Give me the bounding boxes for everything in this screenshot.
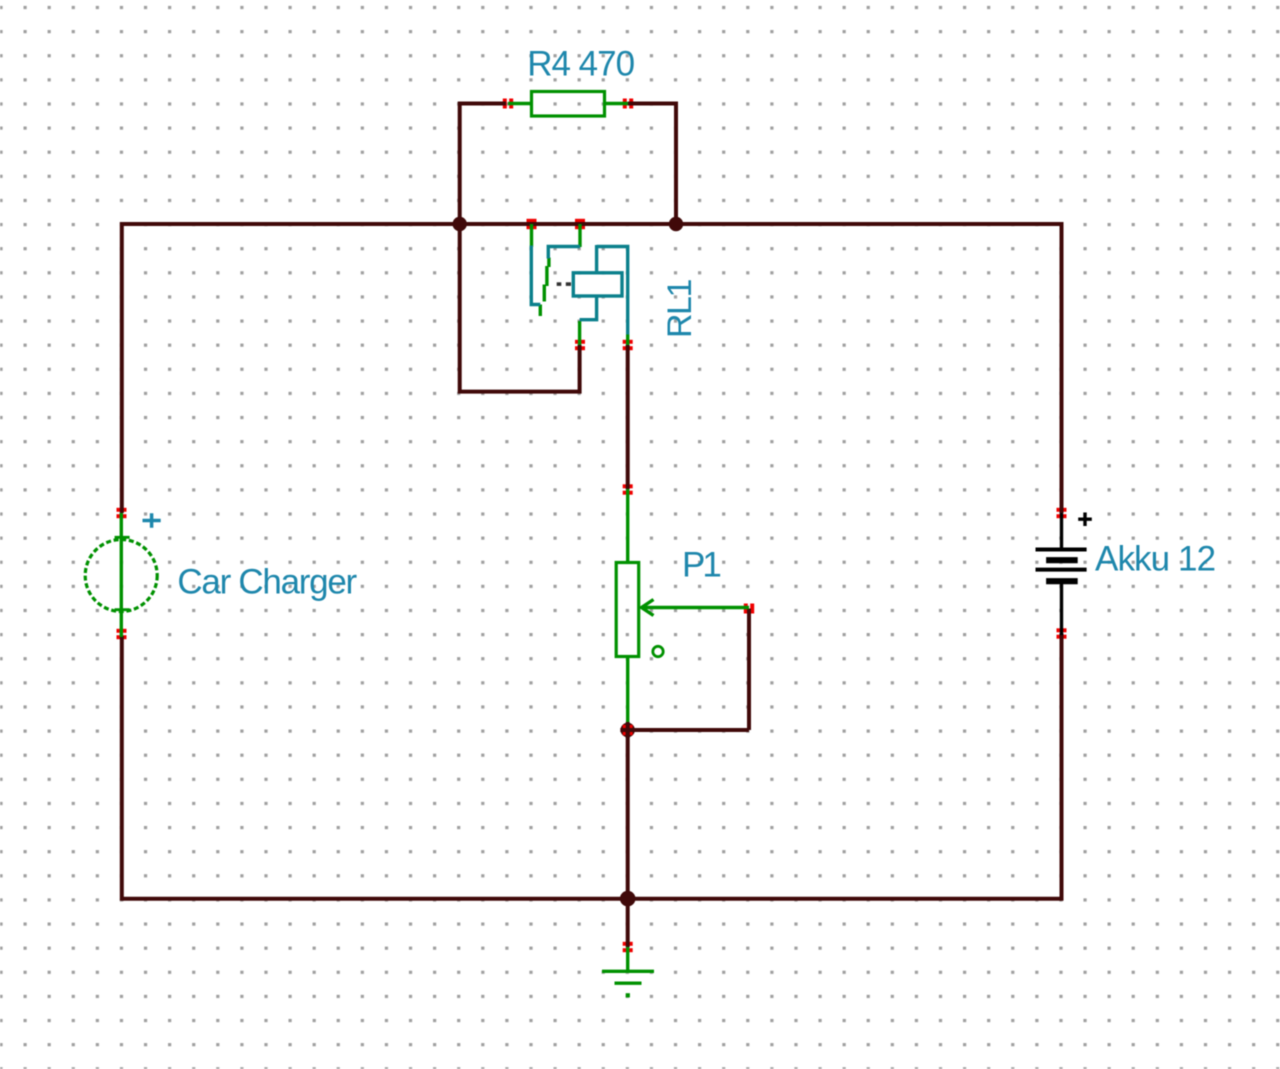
svg-text:RL1: RL1 (661, 280, 699, 338)
svg-text:P1: P1 (682, 546, 720, 585)
svg-text:Car Charger: Car Charger (177, 563, 357, 602)
svg-text:R4 470: R4 470 (527, 45, 634, 84)
svg-text:Akku 12: Akku 12 (1095, 539, 1215, 578)
